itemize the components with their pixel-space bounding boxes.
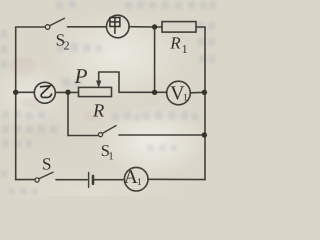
svg-text:S: S: [42, 154, 51, 173]
svg-text:A: A: [124, 167, 138, 188]
svg-text:2: 2: [64, 39, 70, 53]
svg-text:1: 1: [183, 92, 188, 103]
svg-text:1: 1: [108, 151, 114, 163]
svg-text:R: R: [92, 102, 104, 122]
svg-text:1: 1: [182, 42, 188, 56]
svg-text:R: R: [169, 34, 181, 53]
svg-text:P: P: [74, 64, 88, 88]
svg-text:1: 1: [137, 177, 142, 188]
